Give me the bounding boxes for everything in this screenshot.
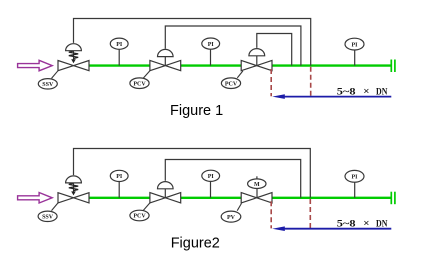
svg-text:PI: PI <box>116 174 123 180</box>
svg-text:PCV: PCV <box>225 81 238 87</box>
valve SSV body F2 <box>58 193 89 203</box>
PCV2 tag balloon F1 <box>221 78 240 89</box>
gauge PI3 balloon F2 <box>354 182 356 198</box>
flow inlet arrow (magenta) F1 <box>18 60 53 71</box>
SSV tag leader F1 <box>52 71 59 79</box>
svg-text:PCV: PCV <box>133 214 146 220</box>
valve PCV1 body F1 <box>150 60 181 70</box>
SSV tag balloon F1 <box>38 79 57 89</box>
valve PCV body F2 <box>150 193 181 203</box>
SSV actuator dome F1 <box>66 44 82 51</box>
valve MOV body F2 <box>241 193 272 203</box>
gauge PI1 balloon F2 <box>118 181 120 198</box>
valve SSV body F1 <box>58 61 89 71</box>
impulse line from SSV to downstream tap F1 <box>74 19 311 66</box>
svg-text:PI: PI <box>352 175 359 181</box>
pipe segment 3 F1 <box>272 64 392 66</box>
MOV tag balloon PV F2 <box>221 211 241 222</box>
MOV tag leader F2 <box>237 203 241 210</box>
SSV tag leader F2 <box>52 203 59 211</box>
impulse line from PCV2 to downstream tap F1 <box>257 34 292 66</box>
svg-text:M: M <box>254 182 260 188</box>
SSV tag balloon F2 <box>38 211 57 221</box>
PCV2 actuator dome F1 <box>249 49 265 56</box>
gauge PI2 balloon F1 <box>210 49 212 65</box>
impulse line from PCV to downstream tap F2 <box>165 160 300 198</box>
svg-text:PCV: PCV <box>133 81 146 87</box>
pipe segment 2 F1 <box>181 64 241 66</box>
PCV1 tag leader F1 <box>143 71 150 79</box>
svg-text:SSV: SSV <box>42 214 54 220</box>
PCV stem F2 <box>164 189 166 198</box>
pipe segment 1 F1 <box>89 64 150 66</box>
svg-text:PI: PI <box>116 42 123 48</box>
datum dashed line at valve outlet F1 <box>270 69 272 96</box>
datum dashed line at last tap F2 <box>309 199 311 228</box>
impulse line from SSV to downstream tap F2 <box>74 149 311 198</box>
svg-text:Figure 1: Figure 1 <box>170 103 223 119</box>
gauge PI3 balloon F1 <box>354 50 356 66</box>
PCV1 actuator dome F1 <box>158 49 174 56</box>
impulse line from PCV1 to downstream tap F1 <box>165 26 301 66</box>
MOV motor circle F2 <box>248 179 266 189</box>
SSV fail-close arrow F1 <box>71 59 76 63</box>
pipe segment 3 F2 <box>272 197 392 199</box>
SSV spring F1 <box>73 51 75 60</box>
svg-text:PI: PI <box>208 174 215 180</box>
PCV1 tag balloon F1 <box>130 78 149 89</box>
pipe segment 2 F2 <box>181 197 241 199</box>
svg-text:PV: PV <box>227 215 236 221</box>
valve PCV2 body F1 <box>241 60 272 70</box>
PCV actuator dome F2 <box>158 182 174 189</box>
PCV tag balloon F2 <box>130 210 149 221</box>
svg-text:PI: PI <box>208 42 215 48</box>
SSV fail-close arrow F2 <box>71 191 76 195</box>
dimension arrow (blue) F1 <box>283 96 391 98</box>
pipe segment 1 F2 <box>89 197 150 199</box>
SSV spring F2 <box>73 183 75 192</box>
PCV2 stem F1 <box>256 56 258 66</box>
PCV2 tag leader F1 <box>237 71 243 78</box>
datum dashed line at valve outlet F2 <box>270 201 272 228</box>
pipe end break ticks F2 <box>390 192 392 205</box>
MOV stem F2 <box>256 176 258 179</box>
PCV tag leader F2 <box>143 203 150 211</box>
dimension arrow (blue) F2 <box>283 228 391 230</box>
svg-text:Figure2: Figure2 <box>171 235 220 251</box>
SSV actuator dome F2 <box>66 176 82 183</box>
svg-text:PI: PI <box>352 42 359 48</box>
gauge PI1 balloon F1 <box>118 49 120 66</box>
PCV1 stem F1 <box>164 57 166 66</box>
datum dashed line at last tap F1 <box>310 67 312 97</box>
flow inlet arrow (magenta) F2 <box>18 193 53 204</box>
gauge PI2 balloon F2 <box>210 181 212 197</box>
pipe end break ticks F1 <box>390 60 392 73</box>
svg-text:SSV: SSV <box>42 82 54 88</box>
